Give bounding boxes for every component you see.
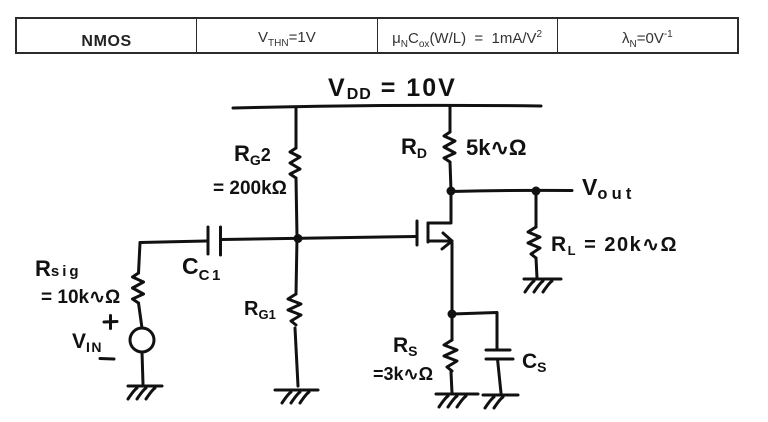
svg-text:=3k∿Ω: =3k∿Ω <box>373 364 433 384</box>
svg-text:RG1: RG1 <box>244 298 276 322</box>
svg-text:VIN: VIN <box>72 330 103 355</box>
svg-text:RS: RS <box>393 334 418 359</box>
svg-text:= 200kΩ: = 200kΩ <box>213 178 287 199</box>
svg-text:5k∿Ω: 5k∿Ω <box>466 135 527 160</box>
svg-text:VDD = 10V: VDD = 10V <box>328 74 457 103</box>
svg-text:RD: RD <box>401 134 427 161</box>
svg-text:Vout: Vout <box>582 174 636 203</box>
svg-text:CC1: CC1 <box>182 253 223 284</box>
svg-text:CS: CS <box>522 350 547 375</box>
svg-text:Rsig: Rsig <box>35 256 82 281</box>
svg-text:= 10k∿Ω: = 10k∿Ω <box>41 287 120 308</box>
svg-text:RL = 20k∿Ω: RL = 20k∿Ω <box>551 233 678 258</box>
svg-text:RG2: RG2 <box>234 141 271 168</box>
